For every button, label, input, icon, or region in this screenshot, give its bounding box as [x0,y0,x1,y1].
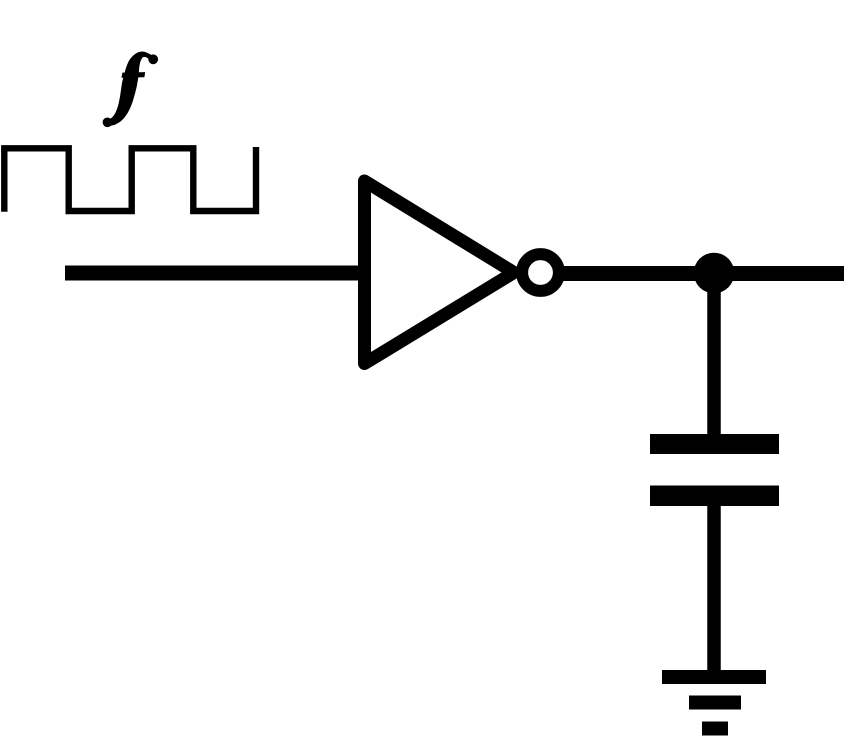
wire (capacitor down to ground) [707,504,721,672]
wire (junction down to capacitor) [707,273,721,436]
ground (bar 2) [689,696,741,710]
wire (inverter output to right) [562,266,844,281]
ground (bar 3) [702,722,728,736]
clock waveform (square wave symbol) [4,147,256,212]
label f (input clock frequency) [103,52,159,128]
capacitor C (top plate) [650,434,779,454]
ground (bar 1) [662,670,766,684]
node (junction dot at capacitor tap) [694,253,735,294]
wire (input wire to inverter) [65,266,364,281]
capacitor C (bottom plate) [650,486,779,507]
inverter U1 (inversion bubble) [522,254,559,291]
inverter U1 (triangle body) [365,181,515,364]
